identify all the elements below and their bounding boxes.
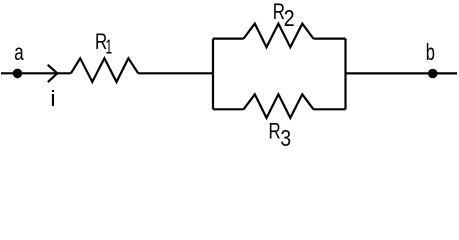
- resistor R1: [71, 58, 138, 82]
- label R2: [273, 0, 295, 32]
- node b (terminal dot): [428, 69, 438, 79]
- svg-text:2: 2: [284, 6, 295, 32]
- svg-text:1: 1: [106, 37, 113, 59]
- svg-text:R: R: [269, 119, 281, 144]
- wire: right junction vertical bar: [344, 39, 346, 110]
- wire: left junction vertical bar: [212, 39, 214, 110]
- node a (terminal dot): [13, 69, 23, 79]
- wire: top branch left segment: [213, 37, 244, 39]
- current arrow i (direction chevron on wire): [48, 65, 58, 82]
- resistor R3: [244, 94, 314, 118]
- label R3: [269, 119, 292, 151]
- svg-text:b: b: [426, 40, 435, 65]
- wire: bottom branch left segment: [213, 108, 244, 110]
- wire: R1 to parallel junction: [138, 72, 213, 74]
- svg-text:3: 3: [280, 125, 291, 149]
- wire: right lead from junction to edge: [346, 72, 458, 74]
- svg-text:a: a: [14, 41, 24, 66]
- svg-text:i: i: [50, 86, 55, 111]
- wire: top branch right segment: [313, 37, 345, 39]
- resistor R2: [244, 24, 314, 48]
- wire: bottom branch right segment: [313, 108, 345, 110]
- label R1: [95, 30, 112, 59]
- wire: left lead from edge to R1: [1, 72, 71, 74]
